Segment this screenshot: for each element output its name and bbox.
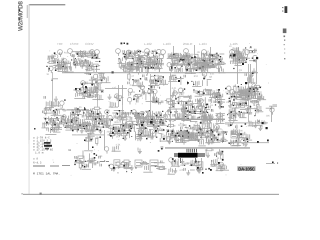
- svg-text:1K: 1K: [217, 157, 220, 160]
- svg-text:W2#M0*D8: W2#M0*D8: [18, 1, 25, 31]
- svg-text:m: m: [117, 172, 119, 175]
- svg-text:1K: 1K: [170, 133, 173, 136]
- svg-text:1ST.IF: 1ST.IF: [70, 42, 79, 46]
- svg-text:M 17E1 1AL 7MA.: M 17E1 1AL 7MA.: [33, 173, 60, 176]
- svg-text:L-102: L-102: [144, 42, 152, 46]
- svg-text:C47: C47: [130, 84, 135, 87]
- svg-text:L-104: L-104: [199, 42, 207, 46]
- svg-text:CONV: CONV: [85, 42, 94, 46]
- svg-text:R12: R12: [71, 55, 76, 58]
- svg-text:L-103: L-103: [163, 42, 171, 46]
- svg-text:0.01: 0.01: [172, 87, 177, 90]
- svg-text:4.7K: 4.7K: [159, 60, 164, 63]
- svg-text:2SA: 2SA: [197, 104, 202, 107]
- svg-text:C47: C47: [185, 163, 190, 166]
- svg-text:o 8: o 8: [33, 158, 38, 161]
- svg-text:1K: 1K: [114, 121, 117, 124]
- svg-text:1K: 1K: [225, 123, 228, 126]
- svg-text:R12: R12: [91, 78, 96, 81]
- svg-text:4.7K: 4.7K: [217, 128, 222, 131]
- svg-text:4.7K: 4.7K: [179, 169, 184, 172]
- svg-text:0.01: 0.01: [195, 108, 200, 111]
- svg-text:2ND.IF: 2ND.IF: [183, 42, 193, 46]
- svg-text:1K: 1K: [159, 75, 162, 78]
- svg-text:R12: R12: [194, 75, 199, 78]
- svg-text:4.7K: 4.7K: [179, 93, 184, 96]
- svg-text:10K: 10K: [128, 119, 133, 122]
- svg-text:1K: 1K: [210, 104, 213, 107]
- svg-text:10K: 10K: [266, 115, 271, 118]
- svg-text:0.01: 0.01: [131, 91, 136, 94]
- svg-text:1K: 1K: [172, 120, 175, 123]
- svg-text:TRF: TRF: [57, 42, 63, 46]
- svg-text:1.8 m: 1.8 m: [35, 152, 44, 155]
- svg-text:2SA: 2SA: [189, 128, 194, 131]
- svg-text:4.7K: 4.7K: [176, 96, 181, 99]
- svg-text:1K: 1K: [46, 73, 49, 76]
- svg-text:0.01: 0.01: [210, 73, 215, 76]
- svg-text:ml: ml: [68, 148, 71, 152]
- svg-text:C47: C47: [95, 137, 100, 140]
- svg-text:6-4.3: 6-4.3: [33, 162, 42, 165]
- svg-text:0.01: 0.01: [120, 129, 125, 132]
- svg-text:1K: 1K: [116, 135, 119, 138]
- svg-text:DA-105C: DA-105C: [238, 166, 255, 171]
- svg-text:R12: R12: [200, 99, 205, 102]
